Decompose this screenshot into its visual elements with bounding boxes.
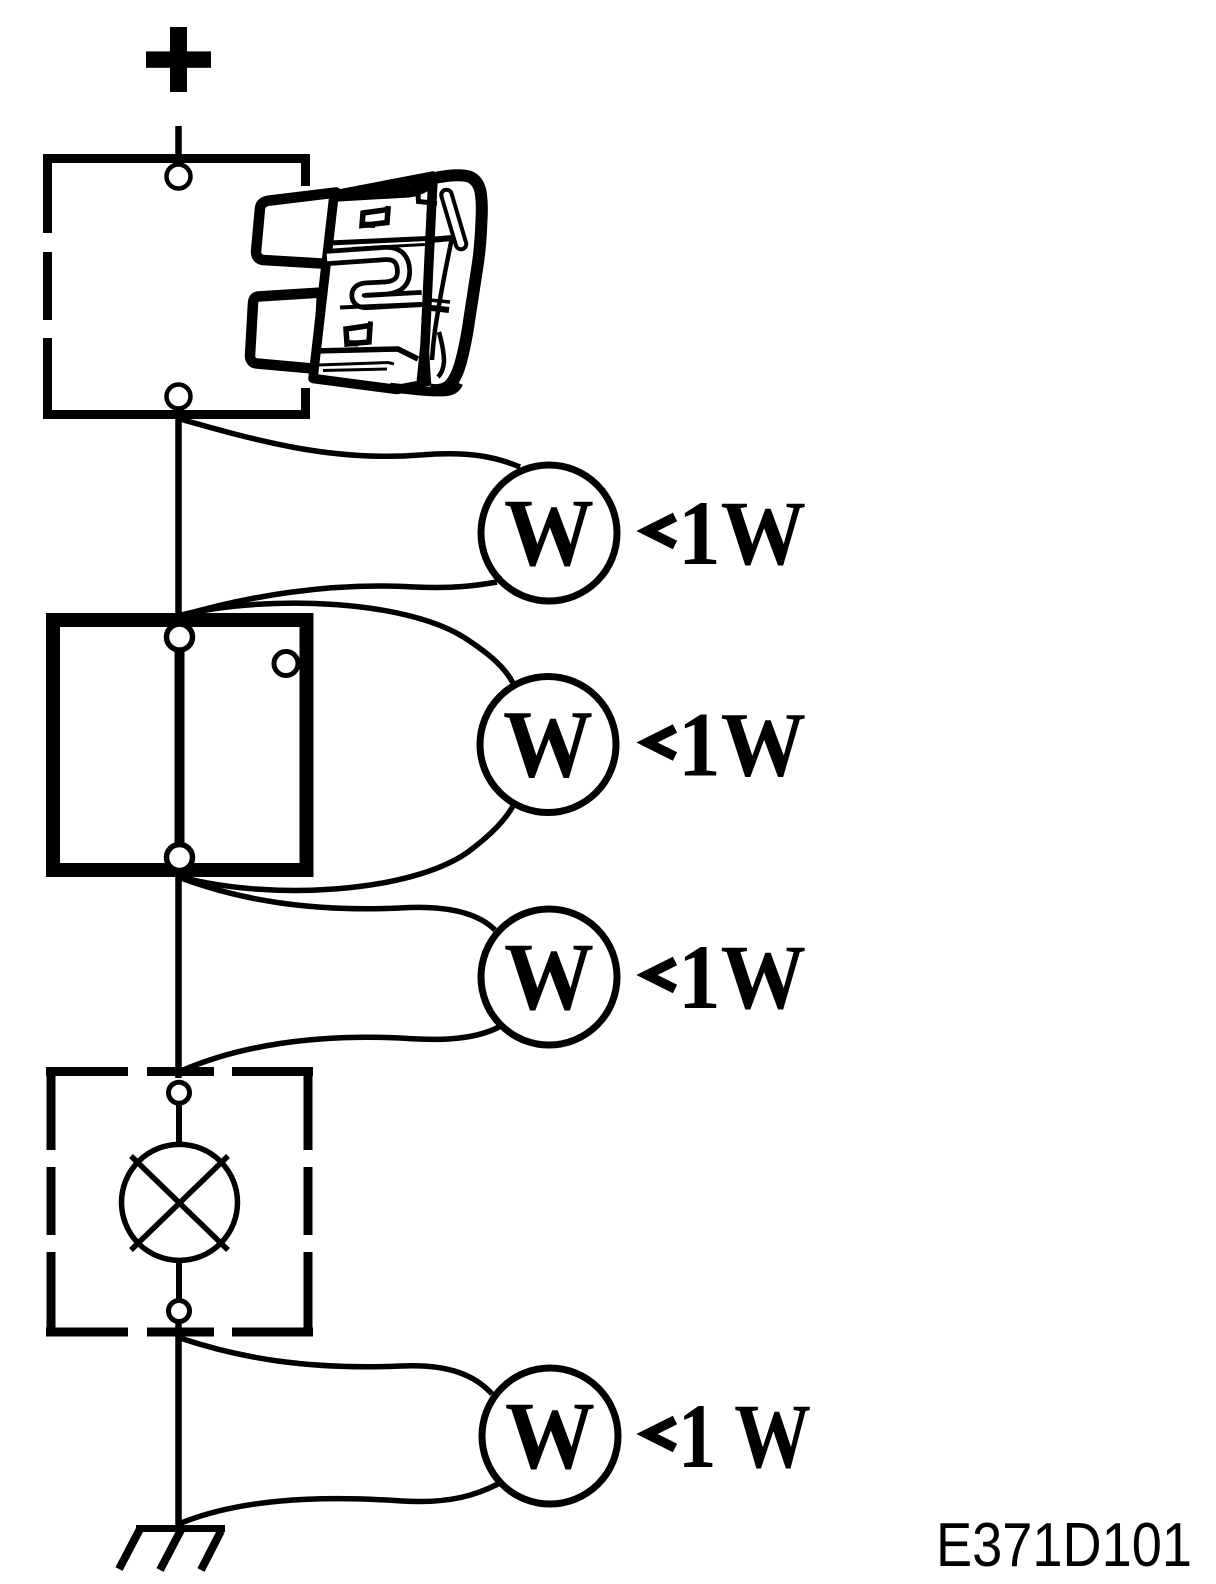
svg-text:1 W: 1 W: [678, 1385, 811, 1487]
wattmeter W4 circle: [482, 1368, 618, 1504]
svg-text:W: W: [504, 479, 594, 586]
fuse box (dashed) top edge: [43, 154, 310, 163]
fuse upper blade: [256, 193, 336, 265]
fuse element S ribbon: [327, 253, 422, 301]
fuse box bottom edge: [43, 410, 310, 419]
battery positive terminal +: [146, 27, 211, 92]
fuse window mark lower: [346, 326, 370, 345]
svg-text:1W: 1W: [678, 926, 806, 1028]
label less-than sign for W3: [647, 961, 675, 989]
fuse divider line upper: [329, 239, 427, 244]
lamp box left edge dashes: [47, 1067, 56, 1337]
switch terminal top: [167, 624, 193, 650]
wire curve: lamp box bottom to wattmeter W4: [180, 1338, 492, 1394]
lamp box (dashed) top edge dashes: [46, 1067, 313, 1076]
svg-text:W: W: [504, 923, 594, 1030]
lamp box right edge dashes: [304, 1067, 313, 1337]
lamp box bottom edge dashes: [46, 1328, 313, 1337]
wire curve: switch top to wattmeter W1: [180, 582, 497, 616]
fuse inner vertical edge: [425, 176, 434, 386]
ground symbol bar: [136, 1525, 225, 1532]
fuse lower blade: [250, 293, 322, 370]
svg-text:1W: 1W: [678, 482, 806, 584]
svg-text:1W: 1W: [678, 694, 806, 796]
switch box: [53, 620, 307, 870]
ground hatch 1: [119, 1529, 140, 1569]
fuse housing side face white fill: [397, 172, 485, 393]
svg-text:E371D101: E371D101: [936, 1511, 1192, 1580]
wire curve: ground junction to wattmeter W4: [181, 1484, 498, 1523]
wattmeter W2 circle: [480, 677, 616, 813]
wire curve: fuse box to wattmeter W1: [180, 419, 520, 467]
svg-text:W: W: [505, 1382, 595, 1489]
fuse side bottom accent: [438, 332, 444, 377]
ground hatch 3: [201, 1531, 221, 1570]
lamp box terminal top: [169, 1082, 190, 1103]
fuse body front face: [313, 176, 433, 390]
wire lamp to terminal: [176, 1257, 182, 1301]
wire curve: switch bottom to wattmeter W2: [181, 806, 513, 890]
fuse box right edge dashes: [301, 154, 310, 419]
fuse housing outer right band: [430, 175, 482, 390]
wattmeter W3 circle: [481, 909, 617, 1045]
lamp X stroke 2: [131, 1156, 228, 1250]
fuse divider continuation on side: [430, 238, 452, 240]
label less-than sign for W4: [647, 1420, 675, 1448]
switch terminal bottom: [167, 845, 193, 871]
label less-than sign for W2: [647, 729, 675, 757]
fuse bottom step lines: [314, 349, 418, 359]
fuse right band white sliver: [440, 192, 473, 380]
wire from + to fuse box: [175, 126, 182, 162]
fuse side crease line: [432, 238, 452, 360]
wire from fuse box bottom to switch box: [175, 409, 182, 618]
wire from lamp box to ground: [175, 1320, 182, 1528]
lamp symbol circle: [122, 1144, 238, 1260]
lamp X stroke 1: [131, 1156, 228, 1250]
svg-text:W: W: [503, 691, 593, 798]
ground hatch 2: [160, 1530, 181, 1570]
fuse illustration white backdrop: [243, 186, 487, 388]
wire curve: switch top to wattmeter W2: [181, 603, 513, 683]
fuse top-right notch: [418, 194, 437, 204]
fuse box terminal bottom: [167, 385, 191, 409]
fuse window mark upper: [362, 210, 388, 226]
lamp box terminal bottom: [169, 1301, 190, 1322]
wire curve: wattmeter W3 to lamp box top: [181, 1027, 499, 1071]
wire from switch box to lamp box: [175, 874, 182, 1078]
fuse top edge: [330, 177, 436, 197]
wire terminal to lamp: [176, 1103, 182, 1148]
fuse divider line lower: [340, 304, 421, 308]
fuse box terminal top: [167, 165, 191, 189]
wire curve: switch bottom to wattmeter W3: [181, 878, 495, 930]
fuse side slot hole: [447, 195, 462, 244]
wattmeter W1 circle: [481, 465, 617, 601]
fuse box left edge dashes: [43, 154, 52, 419]
label less-than sign for W1: [647, 517, 675, 545]
switch indicator circle: [274, 652, 298, 676]
fuse bottom band: [390, 383, 459, 392]
switch contact line: [175, 637, 185, 857]
